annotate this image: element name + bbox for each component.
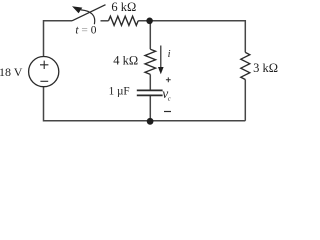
svg-text:4 kΩ: 4 kΩ [113,53,138,67]
svg-text:18 V: 18 V [0,65,23,79]
svg-text:t = 0: t = 0 [75,25,96,37]
svg-text:3 kΩ: 3 kΩ [253,61,278,75]
svg-text:i: i [168,49,171,60]
svg-text:1 µF: 1 µF [109,86,130,98]
svg-text:6 kΩ: 6 kΩ [111,0,136,14]
svg-text:c: c [168,96,171,103]
